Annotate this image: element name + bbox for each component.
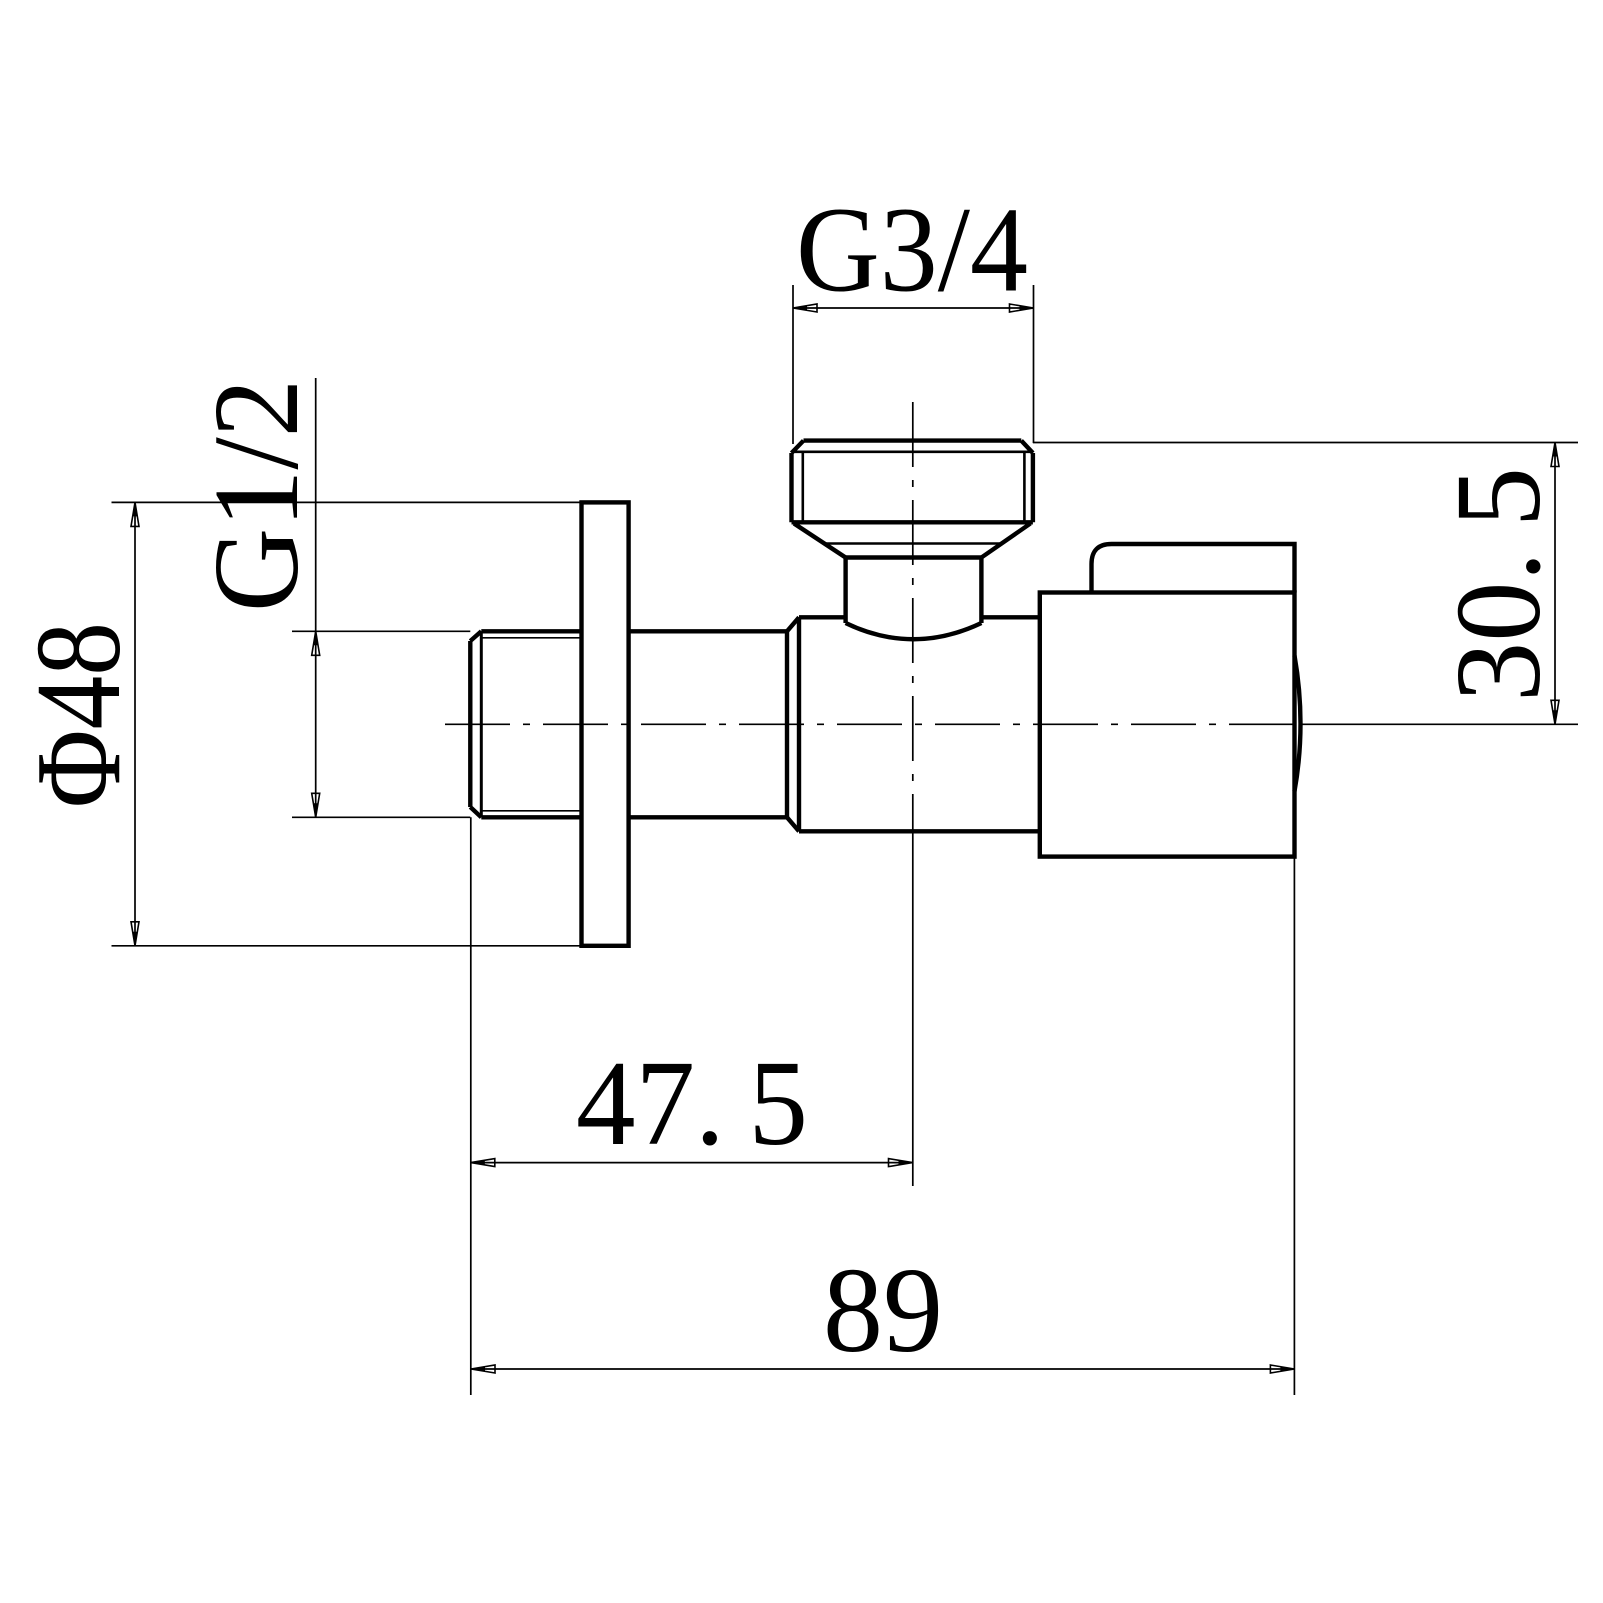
svg-text:Φ48: Φ48 [11,622,146,808]
svg-text:89: 89 [823,1243,943,1378]
svg-text:30. 5: 30. 5 [1431,467,1566,702]
svg-text:G1/2: G1/2 [189,379,324,612]
svg-text:G3/4: G3/4 [796,183,1028,318]
svg-text:47. 5: 47. 5 [576,1036,808,1171]
